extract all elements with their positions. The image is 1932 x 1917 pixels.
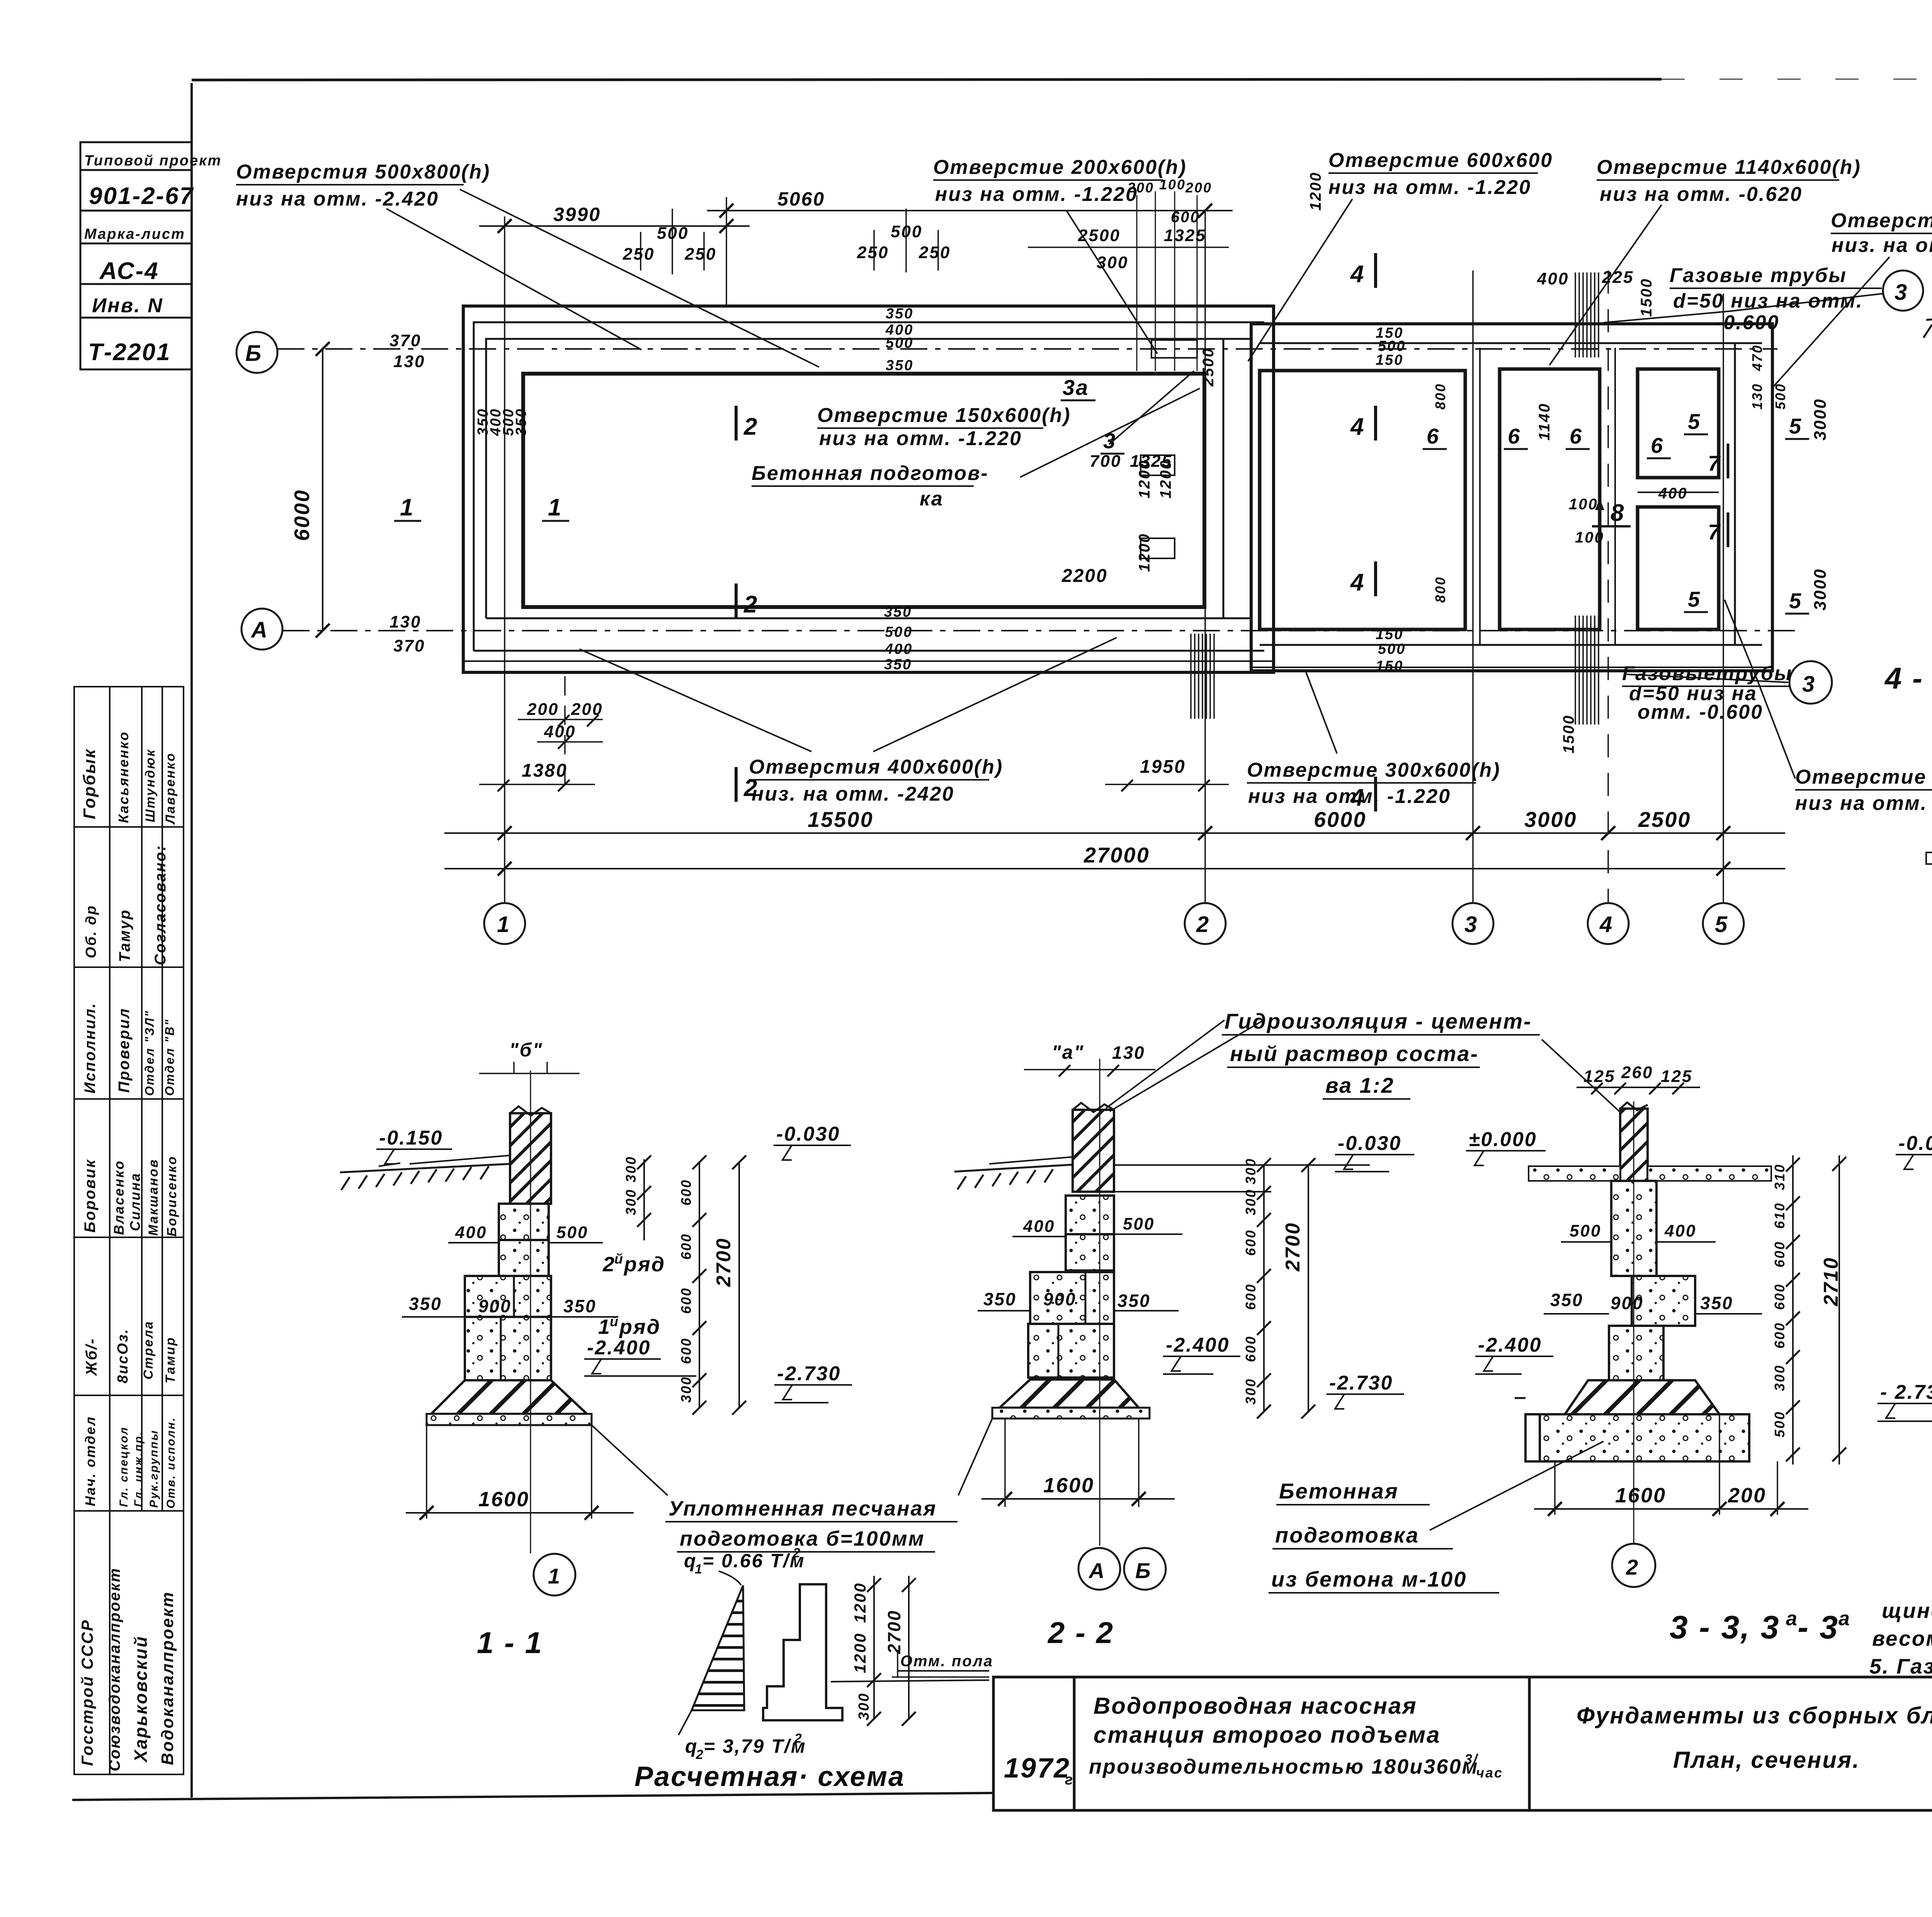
wall between small rooms [1638,492,1719,493]
svg-text:низ на отм. -1.220: низ на отм. -1.220 [819,427,1022,450]
svg-text:125: 125 [1661,1067,1692,1086]
svg-text:1: 1 [598,1315,611,1339]
1-1 axis circle 1 [534,1554,575,1596]
axis 4 vertical line [1607,270,1609,903]
foundation profile [763,1584,842,1720]
1-1 masonry row 2 [465,1276,551,1317]
svg-text:"а": "а" [1052,1041,1084,1063]
title block [993,1677,1932,1810]
svg-text:600: 600 [1171,209,1200,226]
3-3 masonry blocks [1632,1276,1695,1326]
svg-text:Рук.группы: Рук.группы [148,1429,160,1508]
annexe room 8 inner rect [1500,369,1600,629]
svg-text:подготовка: подготовка [1275,1523,1419,1547]
svg-text:150: 150 [1376,658,1403,674]
svg-text:500: 500 [1570,1221,1601,1240]
svg-text:1: 1 [548,494,562,521]
2-2 footing trapezoid hatched [1000,1379,1139,1408]
svg-text:350: 350 [886,357,913,374]
svg-text:1500: 1500 [1638,278,1655,317]
svg-text:300: 300 [1243,1158,1259,1184]
svg-text:600: 600 [1772,1283,1787,1310]
sheet frame bottom line [72,1793,993,1800]
svg-text:Отверстие 200х600(h): Отверстие 200х600(h) [933,156,1187,179]
svg-text:2700: 2700 [1282,1222,1304,1272]
svg-text:350: 350 [1700,1293,1733,1313]
svg-text:Касьяненко: Касьяненко [116,731,131,823]
svg-text:- 3: - 3 [1798,1609,1839,1645]
svg-text:Бетонная подготов-: Бетонная подготов- [752,462,989,485]
svg-text:й: й [610,1313,619,1329]
svg-text:2: 2 [743,591,758,618]
svg-text:1600: 1600 [478,1488,529,1511]
svg-text:4: 4 [1350,569,1365,596]
svg-text:из бетона м-100: из бетона м-100 [1271,1567,1467,1591]
svg-text:Тамир: Тамир [163,1337,178,1383]
svg-text:200: 200 [571,700,603,719]
svg-text:225: 225 [1602,268,1634,287]
svg-text:1: 1 [497,912,510,937]
left vertical dim 6000 line [322,349,323,631]
section mark 2 lower [735,583,738,618]
svg-text:3990: 3990 [553,204,601,225]
svg-text:3: 3 [1895,280,1908,305]
svg-text:600: 600 [678,1287,694,1314]
svg-text:3000: 3000 [1811,398,1830,441]
svg-text:5: 5 [1789,414,1802,438]
svg-text:Стрела: Стрела [141,1320,156,1379]
3-3 floor slab dotted [1529,1166,1620,1181]
svg-text:-2.730: -2.730 [1329,1372,1393,1394]
svg-text:1200: 1200 [851,1633,869,1673]
3-3 wall below floor dotted [1611,1181,1656,1276]
svg-text:2500: 2500 [1200,347,1217,387]
svg-text:1325: 1325 [1164,226,1206,245]
3-3 dim 1600 200 [1555,1414,1777,1515]
svg-text:Б: Б [245,341,262,366]
svg-text:3: 3 [1464,912,1478,937]
svg-text:А: А [1088,1558,1105,1583]
top-left header box [80,142,192,369]
svg-text:500: 500 [1772,1411,1787,1437]
1-1 masonry row 1 [465,1317,551,1380]
svg-text:200: 200 [1127,180,1154,196]
2-2 base plate [992,1408,1150,1419]
svg-text:300: 300 [1243,1189,1259,1215]
partition wall room A / room 8 [1479,348,1481,645]
svg-text:Бетонная: Бетонная [1279,1479,1399,1503]
svg-text:100: 100 [1569,496,1598,513]
svg-text:-0.150: -0.150 [379,1127,443,1149]
svg-text:1140: 1140 [1536,403,1553,441]
leader lines bottom annotations [580,649,811,752]
svg-text:Отверстие 470х600(h): Отверстие 470х600(h) [1795,766,1932,788]
svg-text:производительностью 180и360м: производительностью 180и360м [1089,1755,1478,1778]
svg-text:Отдел "ЗЛ": Отдел "ЗЛ" [143,1010,156,1096]
annexe outer outline [1251,324,1772,671]
svg-text:низ на отм. -0.620: низ на отм. -0.620 [1600,183,1803,206]
svg-text:5: 5 [1789,589,1802,613]
1-1 dim 1600 [427,1425,592,1519]
svg-text:2: 2 [793,1546,801,1560]
svg-text:низ. на отм. -2420: низ. на отм. -2420 [752,783,954,805]
svg-text:а: а [1838,1607,1851,1630]
svg-text:200: 200 [1185,180,1212,196]
svg-text:800: 800 [1432,576,1448,603]
axis circle 5 [1703,903,1744,944]
svg-text:ный раствор соста-: ный раствор соста- [1230,1041,1479,1066]
svg-text:5: 5 [1688,587,1701,611]
svg-text:Марка-лист: Марка-лист [84,226,185,242]
svg-text:Б: Б [1135,1558,1152,1583]
svg-text:2700: 2700 [713,1237,735,1287]
svg-text:Проверил: Проверил [116,1007,133,1093]
svg-text:1950: 1950 [1140,757,1186,777]
small room lower inner rect [1638,507,1719,629]
svg-text:350: 350 [983,1289,1017,1309]
1-1 base plate [427,1414,592,1425]
hall footing line 4 bottom [463,660,1274,662]
svg-text:Отверстия 500х800(h): Отверстия 500х800(h) [236,161,490,183]
svg-text:d=50 низ на отм.: d=50 низ на отм. [1673,290,1863,312]
svg-text:100: 100 [1159,177,1186,192]
svg-text:1380: 1380 [522,760,568,781]
svg-text:низ на отм. -1.220: низ на отм. -1.220 [1795,792,1932,815]
section mark 2 below plan [735,767,738,802]
svg-text:Отверстие 1140х600(h): Отверстие 1140х600(h) [1597,156,1861,179]
svg-text:300: 300 [856,1692,872,1720]
svg-text:4 - 4: 4 - 4 [1884,661,1932,695]
1-1 concrete column blocks [499,1204,549,1240]
svg-text:200: 200 [1728,1484,1766,1507]
svg-text:Водопроводная насосная: Водопроводная насосная [1094,1693,1417,1719]
hall footing line 2 top [474,322,1264,651]
svg-text:1200: 1200 [1136,459,1153,498]
svg-text:Газовые трубы: Газовые трубы [1670,264,1847,287]
svg-text:600: 600 [678,1337,694,1364]
svg-text:400: 400 [455,1223,487,1242]
svg-text:500: 500 [556,1223,588,1242]
dim chain 3990 above plan [479,225,750,227]
svg-text:низ на отм. -1.220: низ на отм. -1.220 [935,183,1138,206]
svg-text:6: 6 [1651,433,1664,458]
svg-text:260: 260 [1621,1063,1653,1082]
svg-text:час: час [1476,1765,1503,1781]
machine hall outer footing outline [463,306,1274,672]
plan texts [236,149,1932,867]
svg-text:= 3,79 Т/м: = 3,79 Т/м [704,1735,806,1757]
svg-text:500: 500 [886,335,913,351]
svg-text:370: 370 [393,636,425,655]
svg-text:подготовка б=100мм: подготовка б=100мм [680,1527,925,1550]
svg-text:1: 1 [400,494,414,521]
svg-text:Силина: Силина [127,1172,143,1231]
svg-text:Союзводоканалпроект: Союзводоканалпроект [106,1567,123,1771]
svg-text:300: 300 [623,1189,639,1215]
svg-text:400: 400 [1537,269,1569,288]
axis circle 3 [1452,903,1493,944]
2-2 right dim stack [1263,1165,1265,1412]
svg-text:600: 600 [1772,1322,1787,1349]
2-2 masonry rows [1030,1272,1114,1324]
load triangle hatched [692,1585,744,1710]
svg-text:100: 100 [1575,529,1604,546]
2-2 axis circles [1078,1548,1120,1590]
sheet frame left line [190,83,193,1798]
dim chain 5060 above plan [707,210,1233,211]
annexe room A inner rect [1260,371,1465,629]
svg-text:а: а [1786,1607,1798,1630]
svg-text:= 0.66 Т/м: = 0.66 Т/м [702,1550,805,1572]
dimension chain 27000 [444,868,1785,869]
svg-text:600: 600 [678,1233,694,1260]
svg-text:4: 4 [1350,784,1365,811]
svg-text:1200: 1200 [1307,172,1324,211]
svg-text:150: 150 [1376,626,1403,643]
3-3 left step [1526,1414,1555,1461]
rotated dim texts plan [290,172,1830,754]
svg-text:130: 130 [1749,383,1765,410]
svg-text:Штундюк: Штундюк [143,748,158,822]
3-3 axis circle 2 [1612,1544,1655,1587]
svg-text:Гл. спецкол: Гл. спецкол [117,1426,130,1507]
svg-text:800: 800 [1432,383,1448,410]
dim lines calc scheme [873,1576,875,1719]
svg-text:Горбык: Горбык [80,748,99,819]
axis B dash-dot line [277,348,1777,350]
axis circle 1 [484,903,525,944]
floor level line [831,1680,989,1682]
annexe right wall inner line [1734,343,1736,645]
svg-text:Гидроизоляция - цемент-: Гидроизоляция - цемент- [1225,1009,1532,1033]
svg-text:250: 250 [622,245,655,264]
svg-text:250: 250 [857,243,889,262]
small dim verticals top-left group [641,209,704,274]
svg-text:350: 350 [886,306,913,322]
svg-text:Отм. пола: Отм. пола [900,1653,993,1670]
svg-text:низ. на отм. -1.220: низ. на отм. -1.220 [1832,234,1932,257]
svg-text:400: 400 [1658,485,1688,502]
svg-text:Гл. инж.пр.: Гл. инж.пр. [132,1431,145,1507]
svg-text:400: 400 [544,722,576,741]
svg-text:300: 300 [1243,1378,1259,1405]
svg-text:щиной 20мм с добавлением жидк: щиной 20мм с добавлением жидкого стекла … [1882,1599,1932,1623]
svg-text:Жб/-: Жб/- [83,1338,100,1376]
svg-text:-2.400: -2.400 [1166,1334,1230,1356]
dim 2500 / 1325 lines above opening [1028,247,1229,248]
axis 3 vertical line [1472,270,1474,903]
3-3 big base slab dotted [1540,1414,1749,1461]
svg-text:ряд: ряд [623,1253,665,1276]
svg-text:6: 6 [1427,424,1440,448]
sand preparation annotation [592,1419,992,1552]
svg-text:2: 2 [1196,912,1210,937]
svg-text:Газовыетрубы: Газовыетрубы [1622,662,1793,685]
svg-text:отм. -0.600: отм. -0.600 [1638,701,1763,723]
section mark 2 upper [735,406,738,441]
svg-text:7: 7 [1708,520,1721,544]
svg-text:400: 400 [884,641,913,657]
leader from in-plan annotation to wall [1020,388,1200,477]
svg-text:300: 300 [1772,1364,1787,1391]
svg-text:-0.600: -0.600 [1716,311,1779,334]
svg-text:-0.030: -0.030 [776,1123,840,1145]
svg-text:2: 2 [743,413,758,440]
svg-text:-2.400: -2.400 [587,1337,651,1359]
svg-text:2: 2 [602,1253,616,1276]
svg-text:Согласовано:: Согласовано: [152,845,169,965]
svg-text:350: 350 [513,408,529,436]
svg-text:Отверстие 600х600: Отверстие 600х600 [1328,149,1553,172]
svg-text:-2.730: -2.730 [777,1362,841,1385]
left stamp table [74,687,184,1774]
svg-text:ряд: ряд [619,1315,661,1339]
svg-text:Власенко: Власенко [111,1160,127,1235]
svg-text:600: 600 [678,1179,694,1206]
4-4 soil hatch marks [1923,318,1932,338]
svg-text:7: 7 [1708,451,1721,475]
gas pipes bundle top [1575,272,1599,357]
partition wall room 8 / small rooms [1614,348,1616,645]
svg-text:250: 250 [684,245,716,264]
svg-text:1 - 1: 1 - 1 [477,1626,543,1660]
svg-text:Тамур: Тамур [116,909,133,962]
svg-text:400: 400 [1023,1217,1055,1236]
svg-text:2: 2 [743,775,758,801]
svg-text:350: 350 [884,657,912,673]
svg-text:310: 310 [1772,1163,1787,1190]
svg-text:300: 300 [678,1376,694,1403]
svg-text:ва 1:2: ва 1:2 [1325,1073,1395,1097]
svg-text:Типовой проект: Типовой проект [84,153,222,169]
svg-text:350: 350 [884,604,912,620]
svg-text:-0.020: -0.020 [1898,1132,1932,1155]
svg-text:4: 4 [1599,912,1613,937]
svg-text:1200: 1200 [851,1582,869,1623]
svg-text:901-2-67: 901-2-67 [89,183,194,209]
2-2 wall axis line [1099,1059,1100,1546]
svg-text:Уплотненная песчаная: Уплотненная песчаная [668,1497,937,1520]
axis 1 vertical line [504,216,505,903]
stamp rotated texts [78,731,179,1772]
svg-text:Инв. N: Инв. N [92,294,163,317]
svg-text:500: 500 [891,222,922,241]
svg-text:Макшанов: Макшанов [146,1158,161,1236]
svg-text:15500: 15500 [808,807,874,832]
svg-text:300: 300 [1097,253,1128,272]
svg-text:370: 370 [389,331,421,350]
svg-text:500: 500 [885,624,913,640]
svg-text:3: 3 [1802,672,1816,697]
svg-text:Водоканалпроект: Водоканалпроект [158,1591,177,1765]
svg-text:3000: 3000 [1524,807,1577,832]
hall footing line 3 bottom [486,617,1251,619]
svg-text:400: 400 [1664,1221,1696,1240]
gas pipes bundle bottom [1575,616,1599,725]
1-1 wall axis line [530,1070,531,1553]
svg-text:1: 1 [695,1562,703,1577]
annexe top line 2 [1260,342,1762,344]
svg-text:А: А [250,617,269,643]
2-2 concrete column blocks [1066,1196,1114,1234]
svg-text:500: 500 [1123,1214,1155,1233]
svg-text:6: 6 [1508,424,1521,448]
svg-text:200: 200 [527,700,559,719]
svg-text:Об. др: Об. др [83,905,99,958]
leader circle 3 bottom gas pipes [1789,661,1832,704]
leader lines from top annotations [386,209,641,350]
svg-text:3а: 3а [1063,375,1089,400]
extension line above axis1 [726,197,727,305]
1-1 wall hatched [510,1113,551,1204]
svg-text:3 - 3, 3: 3 - 3, 3 [1670,1609,1780,1645]
hall inner room rectangle [523,374,1204,607]
svg-text:Т-2201: Т-2201 [88,339,171,366]
svg-text:низ на отм. -1.220: низ на отм. -1.220 [1248,785,1451,808]
4-4 ground line [1926,309,1932,320]
svg-text:2700: 2700 [884,1610,904,1654]
annexe bottom line 3 [1251,667,1772,668]
svg-text:5: 5 [1688,409,1701,434]
svg-text:Отдел "В": Отдел "В" [163,1019,177,1096]
svg-text:5060: 5060 [777,188,825,210]
svg-text:5. Газовые трубы учтены на: 5. Газовые трубы учтены на листе АС-12 [1869,1654,1932,1678]
svg-text:1972: 1972 [1004,1753,1070,1784]
svg-text:610: 610 [1772,1202,1787,1229]
3-3 wall axis line [1633,1101,1634,1544]
title block texts [1004,1693,1932,1788]
2-2 right floor lines [1114,1164,1370,1166]
svg-text:470: 470 [1749,344,1765,371]
svg-text:Отв. исполн.: Отв. исполн. [165,1417,177,1509]
svg-text:1: 1 [548,1564,561,1588]
svg-text:2: 2 [794,1731,803,1746]
svg-text:Отверстие 150х600(h): Отверстие 150х600(h) [817,404,1071,427]
svg-text:весом 1,40-1,42 в количестве: весом 1,40-1,42 в количестве 3,5 % от ве… [1872,1626,1932,1650]
svg-text:350: 350 [1117,1291,1151,1311]
3-3 right dim stack [1792,1155,1794,1465]
svg-text:3000: 3000 [1811,568,1830,611]
svg-text:1200: 1200 [1136,533,1153,572]
svg-text:900: 900 [478,1296,512,1316]
svg-text:ка: ка [920,488,944,510]
header box texts [84,153,222,366]
svg-text:350: 350 [409,1294,442,1314]
svg-text:500: 500 [657,224,689,243]
svg-text:130: 130 [389,612,421,631]
svg-text:Борисенко: Борисенко [165,1155,179,1237]
svg-text:Расчетная· схема: Расчетная· схема [634,1761,905,1792]
svg-text:2710: 2710 [1820,1257,1842,1306]
svg-text:Фундаменты из сборных блоко: Фундаменты из сборных блоков [1577,1703,1932,1728]
svg-text:130: 130 [1112,1043,1145,1063]
svg-text:2500: 2500 [1078,226,1121,245]
svg-text:План, сечения.: План, сечения. [1673,1747,1860,1773]
svg-text:900: 900 [1611,1293,1644,1313]
dimension chain 15500-6000-3000-2500 [444,832,1785,834]
svg-text:8: 8 [1611,500,1625,526]
svg-text:600: 600 [1243,1335,1259,1362]
svg-text:-0.030: -0.030 [1338,1132,1401,1155]
svg-text:2 - 2: 2 - 2 [1047,1616,1114,1650]
svg-text:"б": "б" [509,1039,543,1061]
svg-text:станция второго подъема: станция второго подъема [1094,1722,1440,1748]
svg-text:Нач. отдел: Нач. отдел [82,1416,98,1506]
svg-text:350: 350 [563,1296,597,1316]
axis circle B [236,332,277,373]
svg-text:600: 600 [1243,1229,1259,1256]
svg-text:500: 500 [1378,641,1406,657]
